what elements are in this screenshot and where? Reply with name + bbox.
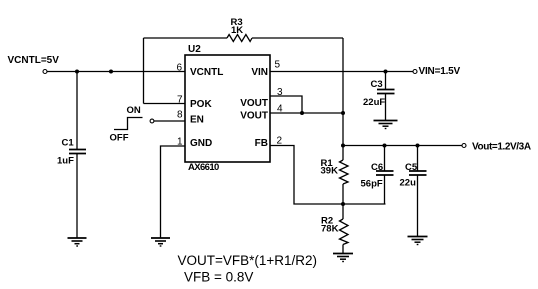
wire Vout output	[343, 145, 462, 147]
svg-text:VOUT=VFB*(1+R1/R2): VOUT=VFB*(1+R1/R2)	[178, 253, 318, 268]
wire C5 to ground	[417, 175, 419, 237]
node junction dot Vout at bus	[341, 144, 345, 148]
svg-text:8: 8	[177, 110, 183, 121]
wire C1 to ground	[76, 154, 78, 239]
wire VCNTL to pin 6	[47, 71, 185, 73]
svg-text:Vout=1.2V/3A: Vout=1.2V/3A	[472, 142, 531, 153]
terminal VCNTL=5V	[8, 55, 60, 74]
resistor R3 1K	[227, 17, 252, 42]
ground under C1	[68, 238, 87, 246]
svg-text:GND: GND	[190, 138, 212, 149]
terminal VIN=1.5V	[413, 66, 461, 77]
ground under C5	[408, 237, 428, 245]
ground under R2	[333, 254, 353, 262]
svg-text:VFB = 0.8V: VFB = 0.8V	[184, 270, 253, 285]
svg-text:C6: C6	[371, 162, 383, 173]
wire C3 to ground	[385, 94, 387, 121]
svg-text:ON: ON	[127, 105, 141, 116]
switch ON/OFF to EN	[110, 105, 154, 144]
svg-text:VCNTL: VCNTL	[190, 67, 223, 78]
wire VIN pin 5	[270, 71, 413, 73]
resistor R1 39K	[321, 158, 349, 184]
svg-text:VOUT: VOUT	[240, 111, 268, 122]
wire R1 bottom to FB node	[342, 184, 344, 219]
node junction dot C5 branch	[416, 144, 420, 148]
svg-text:AX6610: AX6610	[188, 162, 219, 173]
svg-text:VCNTL=5V: VCNTL=5V	[8, 55, 60, 66]
node junction dot on VCNTL wire (C1 branch)	[75, 70, 79, 74]
svg-text:78K: 78K	[321, 224, 339, 235]
wire C6 bottom to FB net	[384, 175, 386, 204]
wire top right segment	[252, 37, 343, 39]
wire R2 to ground	[342, 245, 344, 254]
svg-text:POK: POK	[190, 99, 212, 110]
wire vertical bus x=343 (R3 to VOUT net to R1)	[342, 38, 344, 160]
svg-text:22uF: 22uF	[363, 97, 385, 108]
wire POK to pin 7	[144, 103, 186, 105]
resistor R2 78K	[321, 216, 348, 245]
svg-text:22u: 22u	[400, 178, 417, 189]
svg-text:39K: 39K	[321, 166, 339, 177]
ground under C3	[374, 121, 398, 129]
wire GND pin 1	[161, 146, 186, 238]
svg-text:VOUT: VOUT	[240, 98, 268, 109]
svg-text:FB: FB	[255, 138, 268, 149]
wire Vout to C5	[417, 146, 419, 172]
capacitor C3 22uF	[363, 79, 395, 108]
wire down to C1	[76, 72, 78, 150]
capacitor C5 22u	[400, 162, 427, 189]
wire VOUT pin 3	[270, 96, 302, 113]
capacitor C6 56pF	[361, 162, 394, 190]
svg-text:EN: EN	[190, 115, 204, 126]
svg-text:1uF: 1uF	[57, 156, 74, 167]
svg-text:C3: C3	[371, 79, 383, 90]
wire top left segment	[144, 37, 228, 39]
node junction dot C3 branch	[384, 70, 388, 74]
node junction dot C6 branch	[383, 144, 387, 148]
node junction dot FB net at R1/R2	[341, 202, 345, 206]
node junction dot on VCNTL wire	[109, 70, 113, 74]
op-amp U2 IC body AX6610	[185, 44, 270, 173]
svg-text:56pF: 56pF	[361, 179, 383, 190]
svg-text:VIN: VIN	[251, 67, 268, 78]
wire Vout to C6	[384, 146, 386, 172]
svg-text:OFF: OFF	[110, 133, 129, 144]
svg-text:U2: U2	[188, 44, 201, 55]
svg-text:VIN=1.5V: VIN=1.5V	[419, 66, 461, 77]
svg-text:1K: 1K	[231, 25, 243, 36]
wire VOUT pin 4	[270, 112, 343, 114]
node junction dot VOUT bus	[341, 111, 345, 115]
wire VIN to C3	[385, 72, 387, 90]
wire EN to pin 8	[154, 120, 185, 122]
ground under GND pin	[151, 238, 170, 246]
node junction dot pin3-pin4	[300, 111, 304, 115]
svg-text:C1: C1	[62, 138, 75, 149]
terminal Vout=1.2V/3A	[462, 142, 531, 153]
capacitor C1 1uF	[57, 138, 86, 167]
svg-text:C5: C5	[405, 162, 418, 173]
wire FB pin 2	[270, 146, 386, 205]
wire POK pull-up vertical	[143, 38, 145, 104]
svg-text:5: 5	[275, 60, 281, 71]
